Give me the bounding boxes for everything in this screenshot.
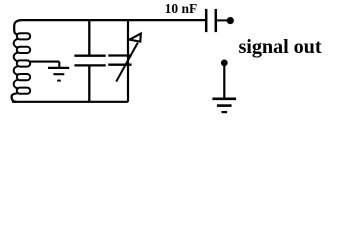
ground right bar 2 bbox=[217, 104, 232, 107]
capacitor C3 10nF right plate bbox=[215, 9, 218, 32]
wire fixed-capacitor branch upper bbox=[88, 19, 90, 55]
variable capacitor C2 bottom plate bbox=[108, 64, 131, 66]
svg-text:10 nF: 10 nF bbox=[165, 1, 198, 16]
capacitor C1 top plate bbox=[74, 55, 105, 57]
wire fixed-capacitor branch lower bbox=[88, 66, 90, 102]
inductor L1 loop 1 bbox=[17, 33, 30, 39]
inductor L1 connector 4-5 bbox=[14, 80, 18, 89]
ground left bar 2 bbox=[53, 73, 64, 75]
inductor L1 connector 3-4 bbox=[14, 66, 18, 75]
wire top horizontal bbox=[22, 19, 206, 21]
inductor L1 loop 5 bbox=[17, 88, 30, 94]
inductor L1 loop 4 bbox=[17, 74, 30, 80]
ground right bar 3 bbox=[222, 111, 228, 113]
inductor L1 loop 3 (tap turn) bbox=[17, 60, 30, 66]
wire bottom horizontal bbox=[12, 101, 128, 103]
variable capacitor C2 arrow head (open) bbox=[130, 34, 141, 42]
inductor L1 top lead bbox=[14, 20, 22, 34]
wire ground stub right bbox=[223, 66, 225, 99]
ground left bar 3 bbox=[57, 80, 61, 82]
variable capacitor C2 top plate bbox=[108, 54, 131, 56]
node ground terminal dot bbox=[221, 60, 228, 67]
node output terminal dot bbox=[227, 17, 234, 24]
ground left bar 1 bbox=[48, 67, 69, 69]
wire coil tap horizontal bbox=[29, 61, 59, 63]
inductor L1 bottom lead bbox=[12, 93, 18, 102]
wire coil tap vertical drop bbox=[58, 62, 60, 68]
inductor L1 loop 2 bbox=[17, 47, 30, 53]
ground right bar 1 bbox=[212, 98, 236, 101]
inductor L1 connector 1-2 bbox=[14, 39, 18, 48]
svg-text:signal out: signal out bbox=[239, 36, 322, 58]
wire C3 to output terminal bbox=[217, 19, 228, 21]
capacitor C1 bottom plate bbox=[74, 64, 105, 66]
capacitor C3 10nF left plate bbox=[205, 9, 208, 32]
variable capacitor C2 arrow shaft bbox=[116, 43, 138, 82]
wire right vertical (tank right edge) bbox=[127, 19, 129, 102]
inductor L1 connector 2-3 bbox=[14, 53, 18, 62]
